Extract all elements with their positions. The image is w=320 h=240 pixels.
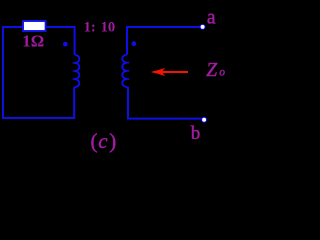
impedance arrowhead xyxy=(151,68,166,76)
wire primary vertical drop xyxy=(74,26,76,55)
wire primary lower drop xyxy=(73,87,75,119)
svg-text:o: o xyxy=(219,66,225,78)
inductor L2 transformer secondary winding xyxy=(122,55,127,87)
wire bottom rail xyxy=(2,117,75,119)
svg-text:(: ( xyxy=(91,129,98,153)
resistor R (1 ohm) body xyxy=(23,21,46,31)
wire left rail xyxy=(2,26,4,119)
wire bottom right rail to terminal b xyxy=(128,118,202,120)
primary polarity dot xyxy=(63,42,68,47)
wire secondary lower drop xyxy=(127,87,129,120)
svg-text:Z: Z xyxy=(206,60,217,81)
wire secondary vertical drop xyxy=(126,26,128,55)
wire secondary top rail to terminal a xyxy=(127,26,200,28)
terminal b node circle xyxy=(202,117,207,122)
secondary polarity dot xyxy=(132,41,137,46)
svg-text:c: c xyxy=(98,129,108,153)
inductor L1 transformer primary winding xyxy=(75,55,80,87)
svg-text:b: b xyxy=(191,123,201,144)
primary winding cusp ticks xyxy=(73,63,75,79)
impedance arrow pointing into secondary xyxy=(154,71,189,73)
svg-text:1: 10: 1: 10 xyxy=(84,20,116,36)
secondary winding cusp ticks xyxy=(127,63,129,79)
svg-text:1Ω: 1Ω xyxy=(22,32,44,51)
wire top-left rail xyxy=(2,26,23,28)
terminal a node circle xyxy=(200,24,205,29)
wire top rail from resistor to primary xyxy=(46,26,75,28)
svg-text:): ) xyxy=(109,129,116,153)
svg-text:a: a xyxy=(207,7,216,28)
